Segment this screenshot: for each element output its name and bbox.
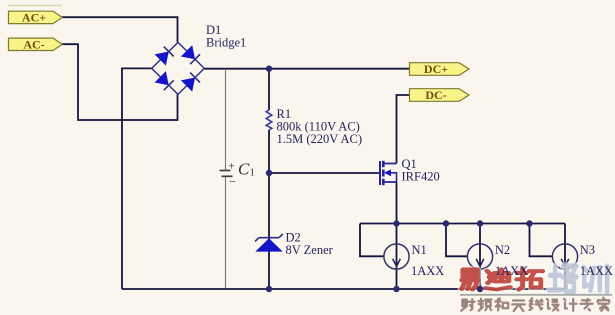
svg-text:1: 1 [250, 168, 255, 179]
wire AC- to bridge bottom [62, 44, 178, 120]
port DC+ [410, 62, 470, 76]
wire N1 bracket [360, 224, 384, 257]
svg-text:DC-: DC- [425, 88, 446, 102]
svg-text:8V Zener: 8V Zener [286, 243, 334, 257]
bridge D1 diamond [152, 42, 205, 94]
svg-text:DC+: DC+ [424, 62, 448, 76]
resistor R1 [266, 110, 272, 130]
port AC+ [9, 11, 63, 25]
diode D1 bottom-left [155, 71, 174, 90]
svg-text:C: C [238, 160, 250, 179]
svg-text:N1: N1 [412, 243, 427, 257]
wire N2 bracket [446, 224, 468, 257]
svg-text:1.5M (220V AC): 1.5M (220V AC) [277, 132, 363, 146]
wire N2 shaft [479, 224, 481, 290]
wire AC+ to bridge top [62, 17, 178, 42]
wire R1 branch [268, 69, 270, 289]
capacitor C1 [220, 171, 233, 177]
wire bridge right to DC+ [204, 68, 410, 70]
svg-text:−: − [229, 175, 236, 189]
wire N rail [360, 223, 565, 225]
current source N1 [384, 244, 409, 269]
svg-text:1AXX: 1AXX [580, 264, 613, 278]
wire C1 branch gray [225, 69, 227, 289]
watermark slogan [461, 298, 609, 311]
port AC- [9, 38, 63, 52]
label C1 [228, 160, 255, 189]
svg-text:1AXX: 1AXX [411, 264, 444, 278]
wire Q1 source down [396, 182, 398, 224]
watermark underline [460, 294, 612, 296]
svg-text:IRF420: IRF420 [402, 169, 440, 183]
svg-text:N2: N2 [495, 243, 510, 257]
svg-text:Bridge1: Bridge1 [206, 35, 246, 49]
svg-text:AC+: AC+ [22, 11, 46, 25]
wire bridge left to bottom rail [122, 68, 152, 289]
zener D2 [255, 234, 283, 252]
node junction dots [266, 66, 533, 293]
svg-text:AC-: AC- [23, 38, 44, 52]
wire N3 shaft [564, 224, 566, 290]
diode D1 top-right [181, 45, 200, 64]
port DC- [410, 88, 470, 102]
wire bottom rail [122, 288, 565, 290]
diode D1 top-left [155, 47, 174, 66]
wire N1 shaft [396, 224, 398, 290]
faint top-left artifact line [8, 5, 62, 7]
svg-text:1AXX: 1AXX [495, 264, 528, 278]
current source N2 [467, 244, 492, 269]
watermark logo [462, 266, 607, 292]
wire DC- to Q1 drain [397, 95, 410, 164]
wire gate [269, 172, 380, 174]
transistor Q1 MOSFET [380, 161, 397, 186]
current source N3 [552, 244, 577, 269]
wire N3 bracket [530, 224, 553, 257]
svg-text:+: + [228, 160, 235, 172]
diode D1 bottom-right [181, 73, 200, 92]
svg-text:N3: N3 [580, 243, 595, 257]
